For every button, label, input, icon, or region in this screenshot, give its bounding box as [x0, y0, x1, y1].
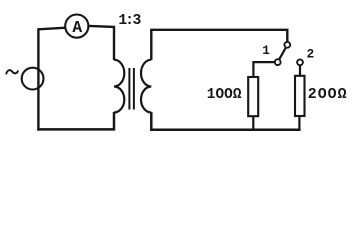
transformer T1 secondary winding [141, 60, 151, 113]
svg-text:2OOΩ: 2OOΩ [308, 87, 348, 103]
label contact 2 [307, 47, 315, 61]
ac source V1 [22, 68, 44, 90]
svg-text:2: 2 [307, 47, 315, 61]
transformer core line left [128, 68, 130, 110]
switch pole contact [284, 42, 290, 48]
wire: secondary bottom [151, 112, 300, 130]
wire: contact 2 to resistor R2 [299, 65, 301, 76]
wire: resistor R1 bottom lead [252, 116, 254, 130]
label contact 1 [262, 44, 270, 58]
svg-text:A: A [72, 19, 82, 37]
wire: primary bottom [37, 112, 114, 129]
resistor R2 200 ohm body [295, 76, 305, 116]
wire: resistor R2 bottom lead [298, 116, 300, 130]
ammeter A1 [65, 15, 88, 38]
transformer T1 primary winding [114, 60, 124, 113]
wire: primary top, ammeter to transformer corner [89, 26, 115, 60]
wire: contact 1 to resistor R1 [253, 62, 274, 77]
transformer core line right [133, 68, 135, 110]
resistor R1 100 ohm body [248, 77, 258, 116]
switch contact 2 [297, 59, 303, 65]
label 100 ohm [207, 87, 242, 103]
label turns ratio 1:3 [118, 13, 141, 29]
wire: primary top, source to ammeter [38, 28, 66, 30]
svg-text:1OOΩ: 1OOΩ [207, 87, 242, 103]
svg-text:3: 3 [133, 13, 142, 29]
wire: secondary top [151, 30, 287, 60]
switch S1 arm [279, 48, 286, 60]
label 200 ohm [308, 87, 348, 103]
wire: primary left side [37, 28, 39, 130]
svg-text:1: 1 [262, 44, 270, 58]
ac tilde symbol [6, 70, 18, 73]
switch contact 1 [275, 59, 281, 65]
